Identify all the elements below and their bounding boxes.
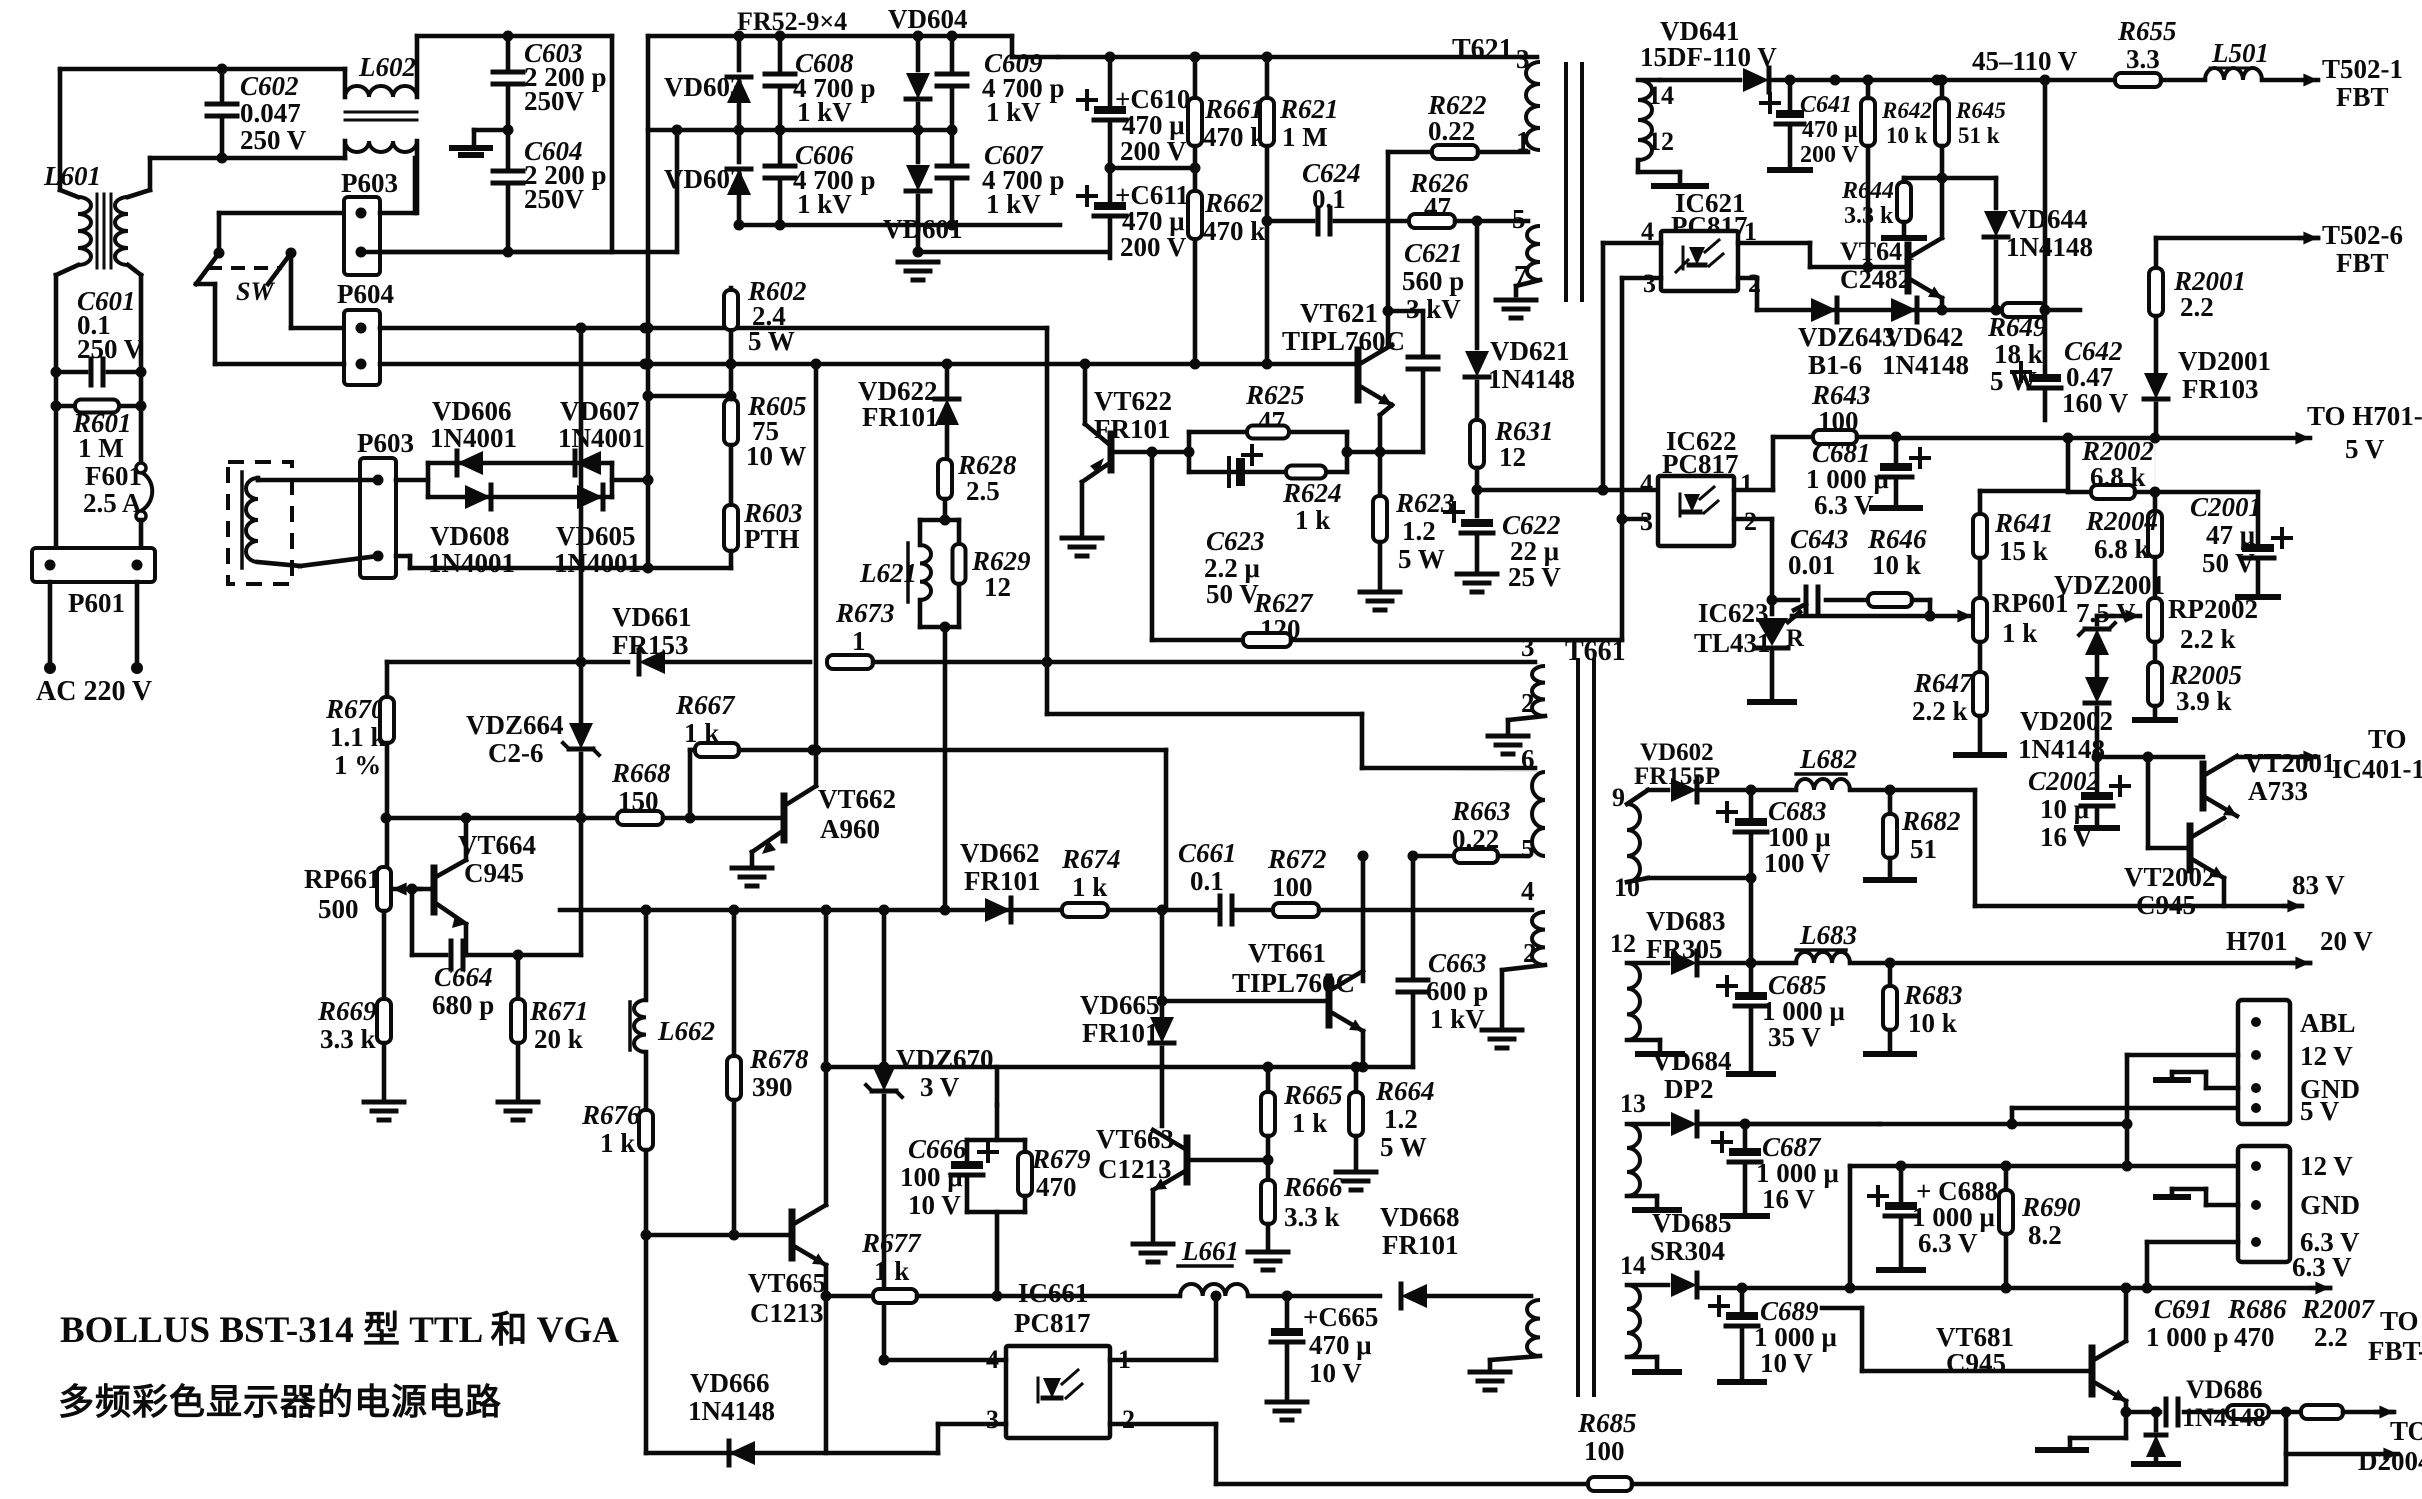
wire VT663 base to R665 node	[1187, 1158, 1268, 1163]
resistor R2005	[2153, 642, 2158, 662]
wire R626 to T621 pin5	[1477, 219, 1528, 224]
wire VT641 emitter to R649 line	[1940, 298, 1945, 310]
inductor L501	[2205, 68, 2262, 80]
svg-text:1 k: 1 k	[874, 1256, 909, 1286]
svg-text:T661: T661	[1565, 636, 1626, 667]
svg-text:TO: TO	[2368, 724, 2407, 754]
line VD661 y662	[387, 660, 628, 665]
svg-text:600 p: 600 p	[1426, 976, 1488, 1006]
capacitor C2001	[2273, 536, 2291, 540]
resistor R645	[1935, 98, 1949, 146]
svg-text:51: 51	[1910, 834, 1937, 864]
svg-text:5: 5	[1521, 834, 1535, 864]
svg-text:10 V: 10 V	[908, 1190, 961, 1220]
svg-text:FR101: FR101	[862, 402, 939, 432]
wire RP661 top	[386, 743, 388, 867]
svg-text:2.2: 2.2	[2314, 1322, 2348, 1352]
arrow to T502-1 FBT	[2262, 78, 2318, 83]
svg-text:PTH: PTH	[744, 524, 800, 554]
svg-text:L683: L683	[1799, 920, 1857, 950]
capacitor C689	[1740, 1288, 1745, 1310]
wire VT664 emitter down	[464, 924, 469, 955]
svg-text:VT641: VT641	[1840, 237, 1915, 266]
wire to TO D2004	[2284, 1412, 2289, 1454]
isolation transformer (dashed)	[228, 462, 292, 584]
svg-text:4: 4	[1640, 469, 1653, 498]
svg-text:VD686: VD686	[2186, 1375, 2263, 1404]
svg-text:5 V: 5 V	[2300, 1096, 2340, 1126]
svg-text:160 V: 160 V	[2062, 388, 2129, 418]
wire H701 20V line	[1890, 961, 2310, 966]
svg-text:VD621: VD621	[1490, 336, 1570, 366]
svg-text:20 V: 20 V	[2320, 926, 2373, 956]
svg-text:VDZ664: VDZ664	[466, 710, 564, 740]
6.3V rail	[1701, 1286, 2330, 1291]
wire VT661 emitter	[1361, 1031, 1366, 1067]
chassis ground between C603 C604	[474, 128, 508, 133]
left rail down	[646, 36, 651, 568]
ground T661 pin2b	[1482, 1028, 1522, 1033]
svg-text:VD602: VD602	[1640, 739, 1714, 766]
svg-text:250V: 250V	[524, 86, 585, 116]
svg-text:470: 470	[2234, 1322, 2275, 1352]
svg-text:VD684: VD684	[1652, 1046, 1732, 1076]
svg-text:6.3 V: 6.3 V	[1814, 490, 1874, 520]
svg-text:FR103: FR103	[2182, 374, 2259, 404]
capacitor C611	[1108, 168, 1113, 200]
svg-text:VDZ2001: VDZ2001	[2054, 570, 2165, 600]
svg-text:FR52-9×4: FR52-9×4	[737, 7, 847, 36]
svg-text:VT622: VT622	[1094, 386, 1172, 416]
svg-text:SW: SW	[236, 277, 275, 306]
wire to ABL 5V pin	[2010, 1108, 2015, 1124]
svg-text:R683: R683	[1903, 980, 1963, 1010]
wire 12V R690 C688 line y1166	[1850, 1164, 2256, 1169]
long horizontal y396	[648, 394, 731, 399]
capacitor C602	[220, 69, 225, 104]
svg-text:3: 3	[1521, 632, 1535, 662]
svg-text:C2482: C2482	[1840, 265, 1911, 294]
svg-text:TO: TO	[2390, 1416, 2422, 1446]
wire to VT665 base	[641, 1230, 652, 1241]
wire L682 node to 83V corner	[1890, 788, 1975, 793]
svg-text:2: 2	[1744, 507, 1757, 536]
svg-text:10 k: 10 k	[1872, 550, 1921, 580]
resistor R623	[1378, 452, 1383, 496]
svg-text:100: 100	[1584, 1436, 1625, 1466]
svg-text:VD668: VD668	[1380, 1202, 1460, 1232]
svg-text:VT662: VT662	[818, 784, 896, 814]
svg-text:IC661: IC661	[1018, 1278, 1089, 1308]
svg-text:A733: A733	[2248, 776, 2308, 806]
svg-text:VD642: VD642	[1884, 322, 1964, 352]
wire below C602	[150, 156, 345, 161]
wire 5V line	[1896, 436, 2310, 441]
svg-text:1: 1	[1740, 469, 1753, 498]
svg-text:6.3 V: 6.3 V	[1918, 1228, 1978, 1258]
svg-text:6.8 k: 6.8 k	[2094, 534, 2150, 564]
svg-text:R642: R642	[1881, 98, 1932, 123]
svg-text:4: 4	[1521, 876, 1535, 906]
wire C683 node down to winding 12 line	[1749, 878, 1754, 963]
potentiometer RP601	[1973, 598, 1987, 642]
wire pin6 line	[1045, 328, 1050, 662]
wire P604 pin2 left to SW	[215, 362, 344, 367]
svg-text:L661: L661	[1181, 1236, 1239, 1266]
svg-text:C2-6: C2-6	[488, 738, 544, 768]
wire VT2002 emitter to 83V line	[2222, 878, 2227, 906]
svg-text:51 k: 51 k	[1958, 123, 2000, 148]
svg-text:1.1 k: 1.1 k	[330, 722, 386, 752]
wire P603-lower pin2 to ground rail	[396, 554, 410, 559]
svg-text:470: 470	[1036, 1172, 1077, 1202]
svg-text:470 μ: 470 μ	[1802, 117, 1858, 143]
svg-text:R676: R676	[581, 1100, 641, 1130]
wire right edge of filter box	[610, 36, 615, 252]
svg-text:C623: C623	[1206, 526, 1265, 556]
svg-text:VD2001: VD2001	[2178, 346, 2271, 376]
svg-text:VD665: VD665	[1080, 990, 1160, 1020]
svg-text:12 V: 12 V	[2300, 1151, 2353, 1181]
resistor R626	[1388, 219, 1408, 224]
svg-text:12 V: 12 V	[2300, 1041, 2353, 1071]
capacitor C604	[493, 169, 523, 174]
svg-text:TIPL760C: TIPL760C	[1232, 968, 1355, 998]
resistor R2001	[2154, 238, 2159, 268]
wire IC661 pin3	[646, 1451, 938, 1456]
svg-text:20 k: 20 k	[534, 1024, 583, 1054]
svg-text:1N4148: 1N4148	[1882, 350, 1969, 380]
wire y757 node	[2097, 755, 2203, 760]
svg-text:A960: A960	[820, 814, 880, 844]
wire y910 main line	[560, 908, 1162, 913]
svg-text:83 V: 83 V	[2292, 870, 2345, 900]
svg-text:1N4148: 1N4148	[2018, 734, 2105, 764]
T621 core	[1564, 64, 1568, 300]
svg-text:FR101: FR101	[1382, 1230, 1459, 1260]
svg-text:TIPL760C: TIPL760C	[1282, 326, 1405, 356]
svg-text:3 V: 3 V	[920, 1072, 960, 1102]
svg-text:200 V: 200 V	[1120, 136, 1187, 166]
capacitor C685	[1749, 963, 1754, 990]
svg-text:FBT: FBT	[2336, 248, 2389, 278]
svg-text:R664: R664	[1375, 1076, 1435, 1106]
capacitor C610	[1108, 57, 1113, 104]
83V line	[1973, 790, 1978, 906]
svg-text:10 k: 10 k	[1908, 1008, 1957, 1038]
wire R663 node down to C663	[1411, 856, 1416, 978]
svg-text:1 M: 1 M	[78, 433, 124, 463]
svg-text:10 k: 10 k	[1886, 123, 1928, 148]
wire IC621 pin2 down to VDZ643 line	[1738, 276, 1757, 281]
wire node to IC622 pin4	[1477, 488, 1603, 493]
svg-text:R655: R655	[2117, 16, 2177, 46]
switch SW	[214, 248, 225, 259]
svg-text:FR153: FR153	[612, 630, 689, 660]
svg-text:200 V: 200 V	[1800, 142, 1860, 168]
wire VT663 collector from VD665	[1160, 1067, 1165, 1126]
svg-text:3.3 k: 3.3 k	[1284, 1202, 1340, 1232]
junction on rail	[644, 479, 646, 481]
capacitor C688	[1899, 1166, 1904, 1200]
svg-text:D2004: D2004	[2358, 1446, 2422, 1476]
svg-text:12: 12	[984, 572, 1011, 602]
wire IC622 pin2 to C643 node	[1770, 519, 1775, 600]
svg-text:VT663: VT663	[1096, 1124, 1174, 1154]
wire L621 node down to VD662 line	[943, 627, 948, 910]
potentiometer RP2002	[2148, 598, 2162, 642]
wire VT622 emitter to ground	[1080, 482, 1085, 534]
svg-text:3: 3	[1640, 507, 1653, 536]
second connector block	[2238, 1146, 2290, 1262]
svg-text:10 V: 10 V	[1309, 1358, 1362, 1388]
svg-text:1 k: 1 k	[1295, 505, 1330, 535]
svg-text:FBT: FBT	[2336, 82, 2389, 112]
arrow to T502-6 FBT	[2156, 236, 2318, 241]
bottom rail of C666 pair	[967, 1210, 1025, 1215]
svg-text:1N4148: 1N4148	[2006, 232, 2093, 262]
resistor R661	[1193, 57, 1198, 96]
R625/R624/C623 loop	[1187, 432, 1192, 472]
wire x1152 down to R627 line	[1150, 452, 1155, 640]
svg-text:5 W: 5 W	[1380, 1132, 1427, 1162]
bottom rail R685	[1216, 1482, 1588, 1487]
wire C687 line	[1701, 1122, 1880, 1127]
svg-text:VT621: VT621	[1300, 298, 1378, 328]
wire IC621 pin3 down	[1622, 276, 1661, 281]
inductor L662 column	[644, 910, 649, 1000]
svg-text:R668: R668	[611, 758, 671, 788]
svg-text:470 k: 470 k	[1203, 122, 1265, 152]
resistor R601	[56, 404, 141, 409]
svg-text:T502-1: T502-1	[2322, 54, 2403, 84]
svg-text:100: 100	[1272, 872, 1313, 902]
svg-text:R641: R641	[1994, 508, 2054, 538]
resistor R621	[1265, 57, 1270, 96]
wire pin14 to VD641	[1638, 78, 1660, 83]
svg-text:VD606: VD606	[432, 396, 512, 426]
svg-text:VT664: VT664	[458, 830, 536, 860]
svg-text:35 V: 35 V	[1768, 1022, 1821, 1052]
svg-text:8.2: 8.2	[2028, 1220, 2062, 1250]
capacitor C607	[950, 130, 955, 164]
svg-text:R621: R621	[1279, 94, 1339, 124]
ground under VD601	[913, 247, 924, 258]
svg-text:PC817: PC817	[1014, 1308, 1091, 1338]
svg-text:1 M: 1 M	[1282, 122, 1328, 152]
svg-text:C666: C666	[908, 1134, 967, 1164]
wire P604 pin2 right	[380, 362, 731, 367]
svg-text:GND: GND	[2300, 1190, 2360, 1220]
svg-text:2.5 A: 2.5 A	[83, 488, 142, 518]
svg-text:0.1: 0.1	[1190, 866, 1224, 896]
svg-text:VD683: VD683	[1646, 906, 1726, 936]
wire P604 pin1 to rail	[380, 326, 1047, 331]
svg-text:1 k: 1 k	[1292, 1108, 1327, 1138]
wire P603 pin1 to L602	[380, 211, 415, 216]
wire pin9 to VD602	[1626, 790, 1628, 804]
svg-text:R673: R673	[835, 598, 895, 628]
AC 220V terminals	[44, 662, 56, 674]
svg-text:2: 2	[1521, 688, 1535, 718]
wire VT661 collector	[1361, 856, 1366, 981]
svg-text:L682: L682	[1799, 744, 1857, 774]
svg-text:R690: R690	[2021, 1192, 2081, 1222]
wire VT2001 emitter to VT2002 collector	[2224, 815, 2237, 817]
resistor R649	[2002, 303, 2046, 317]
svg-text:P604: P604	[337, 279, 394, 309]
svg-text:L602: L602	[358, 52, 416, 82]
vertical x1162 VD665	[1160, 910, 1165, 1018]
wire winding13 bottom	[1627, 1194, 1657, 1199]
svg-text:0.01: 0.01	[1788, 550, 1835, 580]
wire L601 top leads	[60, 190, 78, 197]
svg-text:1N4001: 1N4001	[554, 548, 641, 578]
svg-text:C1213: C1213	[750, 1298, 824, 1328]
svg-text:RP661: RP661	[304, 864, 381, 894]
svg-text:14: 14	[1620, 1251, 1646, 1280]
wire VT681 collector	[2124, 1288, 2129, 1341]
wire ABL 12V riser	[2127, 1053, 2238, 1058]
svg-text:1N4001: 1N4001	[430, 423, 517, 453]
svg-text:VD608: VD608	[430, 521, 510, 551]
resistor R655	[2115, 73, 2161, 87]
svg-text:B1-6: B1-6	[1808, 350, 1862, 380]
svg-text:10: 10	[1614, 873, 1640, 902]
wire VT681 emitter	[2124, 1401, 2129, 1412]
svg-text:R662: R662	[1204, 188, 1264, 218]
diode VD604 top	[916, 36, 921, 70]
svg-text:+C665: +C665	[1303, 1302, 1378, 1332]
svg-text:250 V: 250 V	[77, 334, 144, 364]
wire L601 bottom leads	[56, 265, 78, 275]
svg-text:1: 1	[1516, 126, 1530, 156]
svg-text:2: 2	[1523, 938, 1537, 968]
wire C610 mid to R661 R662 mid	[1110, 166, 1195, 171]
wire IC661 pin2 to bottom rail	[1110, 1422, 1216, 1427]
svg-text:VD685: VD685	[1652, 1208, 1732, 1238]
svg-text:16 V: 16 V	[1762, 1184, 1815, 1214]
svg-text:R: R	[1786, 625, 1805, 652]
wire base feed	[1866, 218, 1871, 267]
connector P601	[32, 548, 155, 582]
wire y1124 extension to riser x2127	[2012, 1122, 2127, 1127]
resistor R644	[1904, 176, 1942, 181]
wire R622 to VT621 collector	[1386, 152, 1391, 345]
svg-text:1 k: 1 k	[1072, 872, 1107, 902]
svg-text:1N4148: 1N4148	[1488, 364, 1575, 394]
wire VT662 emitter ground	[750, 852, 755, 864]
svg-text:TL431: TL431	[1694, 628, 1771, 658]
svg-text:FBT-6: FBT-6	[2368, 1336, 2422, 1366]
svg-text:3.3 k: 3.3 k	[320, 1024, 376, 1054]
svg-text:0.047: 0.047	[240, 98, 301, 128]
svg-text:R665: R665	[1283, 1080, 1343, 1110]
capacitor C624	[1267, 219, 1313, 224]
svg-text:R677: R677	[861, 1228, 922, 1258]
svg-text:R649: R649	[1987, 312, 2047, 342]
svg-text:1 %: 1 %	[334, 750, 381, 780]
svg-text:R685: R685	[1577, 1408, 1637, 1438]
svg-text:R624: R624	[1282, 478, 1342, 508]
svg-text:47: 47	[1424, 192, 1451, 222]
vertical VDZ670	[882, 910, 887, 1067]
wire lower return rail	[645, 566, 731, 571]
svg-text:T502-6: T502-6	[2322, 220, 2403, 250]
capacitor C681	[1894, 437, 1899, 462]
line y310 diodes	[1757, 308, 2011, 313]
diode VD641	[1743, 68, 1769, 92]
capacitor C606	[778, 130, 783, 164]
svg-text:C945: C945	[1946, 1348, 2006, 1378]
svg-text:DP2: DP2	[1664, 1074, 1714, 1104]
wire VT622 base node	[1113, 450, 1189, 455]
ground T661 pin2	[1488, 734, 1528, 739]
svg-text:VD644: VD644	[2008, 204, 2088, 234]
resistor R662	[1188, 191, 1202, 239]
svg-text:390: 390	[752, 1072, 793, 1102]
svg-text:1 kV: 1 kV	[797, 189, 852, 219]
resistor R631	[1470, 420, 1484, 468]
svg-text:L501: L501	[2211, 38, 2269, 68]
svg-text:R671: R671	[529, 996, 589, 1026]
wire x1850 down to 6.3V line	[1848, 1166, 1853, 1288]
wire VT622 collector up to base line	[1083, 364, 1088, 424]
svg-text:SR304: SR304	[1650, 1236, 1725, 1266]
wire VT661 base	[1318, 909, 1320, 911]
svg-text:1N4001: 1N4001	[558, 423, 645, 453]
capacitor C2002	[2095, 757, 2100, 790]
wire winding to P603 lower pin1	[256, 478, 261, 480]
capacitor C641	[1788, 80, 1793, 108]
wire C611 bottom to VD601 ground node	[1107, 252, 1110, 258]
capacitor C687	[1743, 1124, 1748, 1146]
wire second connector 6.3V riser	[2147, 1240, 2238, 1245]
svg-text:C2001: C2001	[2190, 492, 2262, 522]
wire VT662 collector	[814, 364, 819, 786]
svg-text:1N4148: 1N4148	[2182, 1403, 2266, 1432]
svg-text:15DF-110 V: 15DF-110 V	[1640, 42, 1777, 72]
wire y910 to T661 pin4	[1319, 908, 1532, 913]
VT681 emitter ground	[2124, 1412, 2129, 1438]
wire R2002 line y492	[2066, 438, 2071, 492]
wire VT664 collector up	[464, 818, 469, 860]
svg-text:P603: P603	[341, 168, 398, 198]
svg-text:P601: P601	[68, 588, 125, 618]
wire SW to P604	[289, 253, 294, 328]
svg-text:VT2001: VT2001	[2244, 748, 2336, 778]
top rail of C666 pair	[967, 1138, 1025, 1143]
wire VT665 collector up	[824, 910, 829, 1205]
svg-text:5: 5	[1512, 204, 1526, 234]
svg-text:1 kV: 1 kV	[1430, 1004, 1485, 1034]
svg-text:IC401-11: IC401-11	[2332, 754, 2422, 784]
svg-text:C691: C691	[2154, 1294, 2213, 1324]
wire VT621 base line	[733, 362, 1358, 367]
svg-text:BOLLUS BST-314 型 TTL 和 VGA: BOLLUS BST-314 型 TTL 和 VGA	[60, 1309, 619, 1351]
capacitor C683	[1749, 790, 1754, 816]
wire y1067 line	[826, 1065, 1413, 1070]
wire winding bottom to P603 lower pin2	[258, 562, 300, 566]
capacitor C608	[778, 36, 783, 72]
svg-text:680 p: 680 p	[432, 990, 494, 1020]
svg-text:R682: R682	[1901, 806, 1961, 836]
svg-text:R2007: R2007	[2301, 1294, 2376, 1324]
svg-text:VD604: VD604	[888, 4, 968, 34]
svg-text:12: 12	[1648, 127, 1674, 156]
resistor R605	[724, 399, 738, 445]
svg-text:VD662: VD662	[960, 838, 1040, 868]
